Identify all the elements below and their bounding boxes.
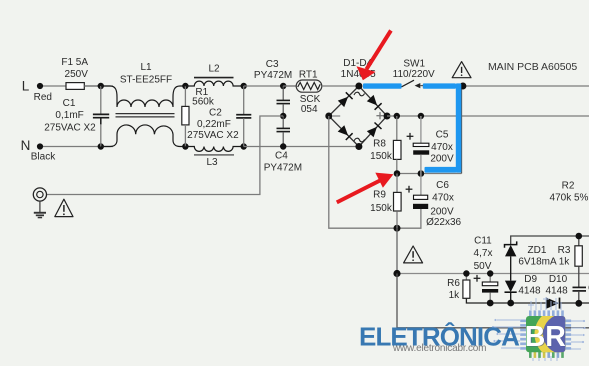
svg-text:L1: L1 (140, 62, 152, 73)
svg-text:C6: C6 (436, 180, 449, 191)
node L3 right (241, 143, 247, 149)
diode D (top-right) (367, 95, 377, 106)
node C11 top (487, 270, 493, 276)
capacitor C6 (420, 174, 422, 196)
svg-text:4148: 4148 (545, 286, 568, 297)
svg-text:D10: D10 (549, 274, 568, 285)
svg-text:R6: R6 (447, 278, 460, 289)
logo chip (520, 309, 585, 360)
svg-text:MAIN PCB A60505: MAIN PCB A60505 (488, 61, 577, 73)
svg-text:C1: C1 (63, 98, 76, 109)
svg-text:560k: 560k (192, 96, 215, 107)
svg-text:SW1: SW1 (403, 58, 425, 69)
resistor R1 (184, 86, 186, 106)
wire N bottom AC line (40, 146, 113, 148)
svg-text:L: L (22, 78, 30, 93)
switch SW1 arm (402, 80, 414, 87)
zener ZD1 (505, 241, 517, 247)
svg-text:275VAC X2: 275VAC X2 (187, 130, 239, 141)
chip pins (520, 310, 571, 349)
node C4 bottom (280, 143, 286, 149)
svg-text:C4: C4 (275, 151, 288, 162)
wire top to L1 (84, 85, 113, 87)
svg-text:4148: 4148 (518, 286, 541, 297)
ground symbol (39, 201, 41, 212)
svg-text:0,1mF: 0,1mF (55, 110, 83, 121)
warning triangle (lower) (404, 246, 423, 263)
svg-text:C5: C5 (436, 129, 449, 140)
DC plus rail (387, 115, 589, 117)
svg-text:Ø22x36: Ø22x36 (426, 217, 461, 228)
lower mid rail (397, 273, 589, 275)
svg-text:D9: D9 (524, 274, 537, 285)
upper right rail (511, 236, 589, 245)
red arrow 1 (357, 31, 391, 81)
AC tilde top (354, 92, 365, 96)
bridge node left (325, 113, 332, 120)
diode D (top-left) (338, 97, 348, 107)
svg-text:RT1: RT1 (299, 70, 318, 81)
node R3 top (576, 233, 583, 240)
svg-text:N: N (21, 138, 31, 153)
inductor L1 bottom winding (101, 125, 185, 147)
svg-text:1k: 1k (449, 290, 461, 301)
capacitor C5 (420, 116, 422, 143)
warning triangle (earth) (55, 199, 73, 216)
svg-text:470k 5%: 470k 5% (550, 192, 589, 203)
svg-text:R8: R8 (373, 138, 386, 149)
svg-text:110/220V: 110/220V (393, 69, 435, 80)
svg-text:200V: 200V (430, 206, 454, 217)
resistor R9 (396, 174, 398, 193)
node L1 top right (182, 83, 188, 89)
node junction C1 bottom (98, 143, 104, 149)
svg-text:250V: 250V (65, 69, 89, 80)
wire R9 down to lower rail (396, 228, 398, 273)
earth terminal circle (33, 188, 46, 201)
inductor L3 (185, 147, 243, 152)
resistor R6 (465, 274, 467, 281)
L1 core (116, 113, 175, 115)
svg-text:470x: 470x (432, 193, 454, 204)
svg-text:200V: 200V (430, 153, 454, 164)
blue highlight path (363, 83, 461, 172)
svg-text:ST-EE25FF: ST-EE25FF (120, 74, 172, 85)
node lower rail start (393, 270, 400, 277)
svg-text:Red: Red (34, 92, 52, 103)
node R9 bottom junction (394, 225, 401, 232)
inductor L1 top winding (101, 86, 185, 107)
svg-text:BR: BR (525, 321, 566, 353)
svg-text:PY472M: PY472M (254, 70, 292, 81)
capacitor C3 (277, 86, 291, 116)
node L1 bottom right (182, 143, 188, 149)
svg-text:C11: C11 (474, 236, 492, 247)
svg-text:4,7x: 4,7x (474, 248, 493, 259)
diode D (bottom-right) (367, 127, 377, 138)
node junction C1 top (98, 83, 104, 89)
logo traces decorative (494, 297, 583, 361)
svg-text:www.eletronicabr.com: www.eletronicabr.com (392, 343, 486, 354)
svg-text:R3: R3 (558, 245, 571, 256)
node edge cap bottom (575, 300, 582, 307)
bridge node top (355, 83, 362, 90)
svg-text:6V18mA: 6V18mA (518, 257, 557, 268)
capacitor C4 (277, 116, 291, 147)
bridge D1-D4 diamond (329, 86, 387, 147)
minus mark bridge (333, 115, 341, 117)
terminal N (37, 143, 43, 149)
thermistor RT1 (283, 85, 296, 87)
wire top to C3 (244, 85, 297, 87)
svg-text:Black: Black (31, 151, 56, 162)
diode D10 (547, 298, 560, 309)
logo rail (397, 327, 589, 329)
capacitor C11 (489, 274, 491, 283)
plus C5 (407, 135, 414, 137)
node C5 top (418, 113, 424, 119)
warning triangle (switch area) (452, 62, 471, 78)
wire switch node to right edge (462, 85, 589, 87)
wire earth link from C3/C4 mid (47, 116, 284, 195)
red arrow 2 (337, 173, 394, 203)
AC tilde bottom (354, 138, 365, 142)
DC minus wire from bridge left (329, 116, 421, 228)
node C3/C4 mid (280, 113, 286, 119)
capacitor edge right (573, 287, 587, 291)
svg-text:054: 054 (301, 104, 318, 115)
plus C6 (406, 188, 413, 190)
node C11 bottom (487, 300, 494, 307)
svg-text:275VAC X2: 275VAC X2 (44, 122, 96, 133)
svg-text:R9: R9 (373, 190, 386, 201)
svg-text:0,22mF: 0,22mF (197, 119, 231, 130)
node R6 top (463, 270, 469, 276)
svg-text:C3: C3 (266, 59, 279, 70)
wire RT1 to bridge top (322, 85, 359, 87)
node C5 bottom (418, 170, 425, 177)
svg-text:L3: L3 (206, 157, 218, 168)
plus mark bridge (376, 115, 383, 117)
svg-text:150k: 150k (370, 203, 393, 214)
wire bottom to C4/bridge (244, 146, 359, 148)
terminal L (37, 83, 43, 89)
svg-text:470x: 470x (431, 142, 453, 153)
node switch junction (459, 83, 466, 90)
capacitor C1 (93, 86, 109, 147)
svg-text:ZD1: ZD1 (528, 245, 547, 256)
svg-text:1k: 1k (559, 257, 571, 268)
svg-text:C2: C2 (209, 108, 222, 119)
capacitor C2 (236, 86, 251, 147)
node D9 bottom (507, 300, 514, 307)
wire L top AC line (40, 85, 66, 87)
L3 core bar (194, 154, 234, 156)
resistor R3 (578, 236, 580, 246)
plus C11 (474, 277, 481, 279)
fuse F1 (66, 85, 101, 87)
bridge node bottom (355, 143, 362, 150)
svg-text:R2: R2 (562, 181, 575, 192)
node R8 bottom (394, 170, 401, 177)
svg-text:PY472M: PY472M (264, 163, 302, 174)
L2 core bar (194, 77, 234, 79)
bridge node right (384, 113, 391, 120)
svg-text:F1 5A: F1 5A (61, 57, 88, 68)
mid rail C5/C6 (397, 173, 462, 175)
node C3 top (280, 83, 286, 89)
wire down to logo rail (396, 274, 398, 328)
svg-text:150k: 150k (370, 151, 393, 162)
diode D9 (505, 281, 517, 292)
inductor L2 (185, 81, 243, 86)
vertical wire to switch node (461, 86, 463, 174)
node L2 right (241, 83, 247, 89)
diode D (bottom-left) (338, 125, 348, 135)
svg-text:L2: L2 (208, 64, 220, 75)
resistor R8 (396, 116, 398, 140)
node R8 top (394, 113, 400, 119)
svg-text:50V: 50V (474, 261, 492, 272)
